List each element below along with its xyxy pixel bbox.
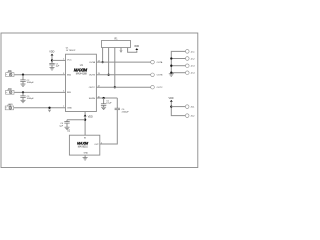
wire	[52, 59, 66, 61]
wire	[171, 65, 185, 67]
wire OUTA	[96, 61, 150, 63]
connector INA	[6, 72, 14, 77]
power flag VDD	[170, 100, 173, 102]
capacitor C2	[20, 80, 25, 82]
terminal OUTB	[151, 73, 155, 77]
resistor network R1 box	[102, 41, 131, 48]
ground	[169, 74, 174, 76]
svg-text:INA: INA	[67, 74, 71, 77]
node junction	[170, 57, 172, 59]
op-amp U1 box	[66, 54, 97, 111]
node junction	[170, 105, 172, 107]
terminal VDD1	[185, 105, 189, 109]
svg-text:OUTA: OUTA	[89, 61, 95, 64]
wire pin2	[108, 48, 110, 75]
wire OUTB	[96, 74, 150, 76]
svg-text:MAXIM: MAXIM	[77, 142, 89, 146]
capacitor C3	[20, 96, 25, 98]
capacitor C5	[101, 104, 106, 106]
svg-text:0.1µF: 0.1µF	[106, 103, 112, 105]
power flag VDD	[135, 48, 138, 50]
terminal VDD2	[185, 114, 189, 118]
wire	[22, 97, 24, 100]
svg-text:VDD: VDD	[88, 115, 93, 118]
svg-text:1000pF: 1000pF	[27, 82, 35, 84]
wire	[100, 110, 118, 144]
wire	[51, 56, 53, 64]
svg-text:INB: INB	[67, 92, 71, 94]
svg-text:5: 5	[63, 91, 64, 93]
node junction	[170, 65, 172, 67]
wire bus	[171, 51, 185, 73]
svg-text:INB: INB	[8, 88, 12, 90]
node junction	[107, 74, 109, 76]
wire	[66, 120, 68, 122]
wire	[14, 91, 65, 93]
border frame	[1, 33, 198, 168]
capacitor C4	[64, 122, 69, 124]
svg-text:MAX4188: MAX4188	[76, 72, 88, 75]
ground	[101, 107, 106, 109]
wire	[22, 92, 24, 96]
svg-text:OUTC: OUTC	[89, 87, 96, 89]
node junction	[22, 74, 24, 76]
svg-text:OUTB: OUTB	[89, 75, 96, 77]
svg-text:14 TSSOP: 14 TSSOP	[66, 50, 76, 52]
svg-text:INA: INA	[8, 70, 12, 73]
svg-text:7: 7	[63, 106, 64, 108]
ground arrow	[119, 50, 122, 53]
connector J3	[5, 105, 13, 110]
node junction	[48, 107, 50, 109]
svg-text:MAX8510: MAX8510	[78, 146, 89, 149]
svg-text:VDD: VDD	[49, 51, 54, 54]
svg-text:3: 3	[63, 73, 64, 75]
wire	[171, 58, 185, 60]
ground	[21, 84, 26, 86]
wire	[14, 74, 65, 76]
regulator U2 box	[69, 135, 99, 155]
wire	[103, 98, 105, 104]
wire	[22, 81, 24, 83]
wire pin1	[102, 48, 104, 63]
power flag VDD	[84, 115, 87, 117]
node junction	[101, 61, 103, 63]
wire	[14, 107, 66, 109]
wire	[66, 123, 68, 127]
ground	[65, 127, 70, 129]
wire	[67, 119, 85, 121]
wire	[103, 105, 105, 107]
terminal GND1	[186, 50, 190, 54]
node junction	[170, 72, 172, 74]
node junction	[102, 97, 104, 99]
svg-text:OUTC: OUTC	[157, 87, 163, 89]
power flag VDD	[51, 54, 54, 56]
terminal GND2	[186, 57, 190, 61]
wire	[116, 98, 118, 108]
wire	[171, 72, 185, 74]
svg-text:1000pF: 1000pF	[27, 98, 35, 100]
wire	[22, 75, 24, 80]
wire pin5	[128, 48, 137, 53]
node junction	[51, 59, 53, 61]
svg-text:VCC: VCC	[67, 60, 72, 62]
svg-text:GND: GND	[84, 153, 89, 155]
wire	[51, 65, 53, 68]
ground	[50, 68, 55, 70]
wire OUTC	[96, 86, 150, 88]
svg-text:GND: GND	[8, 104, 13, 106]
capacitor C6	[115, 108, 120, 110]
wire	[171, 102, 185, 116]
terminal OUTA	[151, 60, 155, 64]
ground	[83, 158, 88, 160]
svg-text:OUTA: OUTA	[157, 61, 163, 64]
svg-text:2200pF: 2200pF	[122, 112, 130, 114]
node junction	[114, 86, 116, 88]
ground	[21, 100, 26, 102]
wire	[84, 112, 86, 136]
svg-text:SHDN: SHDN	[89, 98, 96, 100]
wire pin4	[120, 48, 122, 51]
svg-text:GND: GND	[67, 108, 72, 110]
node junction	[84, 119, 86, 121]
node junction	[22, 91, 24, 93]
svg-text:1: 1	[63, 59, 64, 61]
svg-text:OUTB: OUTB	[157, 75, 163, 77]
ground arrow	[48, 110, 51, 113]
terminal OUTC	[151, 85, 155, 89]
capacitor C1	[49, 63, 54, 65]
svg-text:2: 2	[101, 142, 102, 144]
wire	[171, 106, 185, 108]
connector INB	[6, 89, 14, 94]
wire	[96, 97, 117, 99]
terminal GND4	[186, 71, 190, 75]
wire	[84, 155, 86, 157]
svg-text:VDD: VDD	[134, 45, 139, 48]
terminal GND3	[186, 64, 190, 68]
svg-text:VDD: VDD	[168, 97, 173, 100]
wire pin3	[114, 48, 116, 88]
